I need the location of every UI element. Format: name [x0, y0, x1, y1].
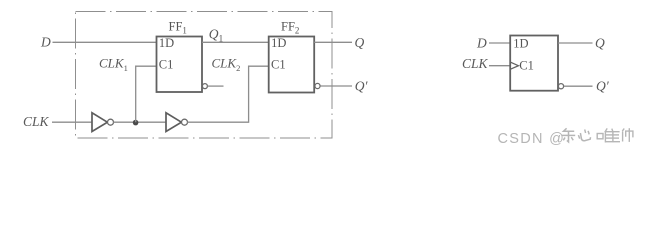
svg-text:Q: Q [595, 35, 605, 50]
inverter G2 output bubble [182, 119, 188, 125]
wire G1 output to inverter G2 input [113, 121, 166, 123]
FF2 inverted output bubble [315, 83, 320, 88]
svg-text:CLK1: CLK1 [99, 56, 128, 73]
svg-text:Q: Q [355, 35, 365, 50]
watermark glyph 唯 [597, 128, 620, 142]
svg-text:1D: 1D [513, 36, 528, 50]
flip-flop FF1 body [157, 37, 203, 93]
svg-text:1D: 1D [159, 36, 174, 50]
wire CLK input to inverter G1 [52, 121, 93, 123]
svg-text:CLK: CLK [23, 114, 50, 129]
wire CLK1 junction up to FF1 pin C1 [136, 66, 157, 122]
junction node (CLK1 tap) [133, 120, 139, 126]
watermark glyph 帅 [622, 128, 633, 142]
wire FF2 Q' output to node Q' [320, 85, 352, 87]
wire CLK to right FF pin C1 [489, 65, 511, 67]
wire U3 Q' output to node Q' [564, 85, 593, 87]
wire FF1 inverted output stub [208, 85, 224, 87]
svg-text:CLK2: CLK2 [212, 56, 241, 73]
flip-flop FF2 body [269, 37, 315, 93]
watermark glyph 乐 [562, 128, 575, 142]
svg-text:C1: C1 [271, 57, 286, 71]
svg-text:D: D [40, 34, 51, 49]
wire D to right FF pin 1D [489, 42, 511, 44]
svg-text:Q′: Q′ [355, 79, 369, 94]
svg-text:1D: 1D [271, 36, 286, 50]
flip-flop U3 body (right standalone FF) [510, 36, 558, 91]
svg-text:FF1: FF1 [169, 20, 187, 36]
svg-text:C1: C1 [519, 58, 534, 72]
svg-text:C1: C1 [159, 57, 174, 71]
svg-text:FF2: FF2 [281, 20, 299, 36]
inverter G2 triangle [166, 113, 181, 132]
U3 inverted output bubble [558, 84, 563, 89]
outer dash-dot module boundary box [76, 12, 333, 139]
wire D input to FF1 pin 1D [53, 41, 158, 43]
svg-text:D: D [476, 35, 487, 50]
wire Q1: FF1 Q output to FF2 pin 1D [202, 41, 269, 43]
inverter G1 triangle [92, 113, 107, 132]
wire CLK2 from G2 output to FF2 pin C1 [187, 66, 269, 122]
svg-text:CSDN @: CSDN @ [498, 131, 566, 147]
wire U3 Q output to node Q [558, 42, 593, 44]
svg-text:Q′: Q′ [596, 79, 610, 94]
svg-text:CLK: CLK [462, 56, 489, 71]
FF1 inverted output bubble [202, 84, 207, 89]
wire FF2 Q output to node Q [314, 41, 352, 43]
watermark glyph 心 [578, 130, 590, 141]
U3 dynamic clock input wedge [511, 62, 519, 69]
inverter G1 output bubble [108, 119, 114, 125]
